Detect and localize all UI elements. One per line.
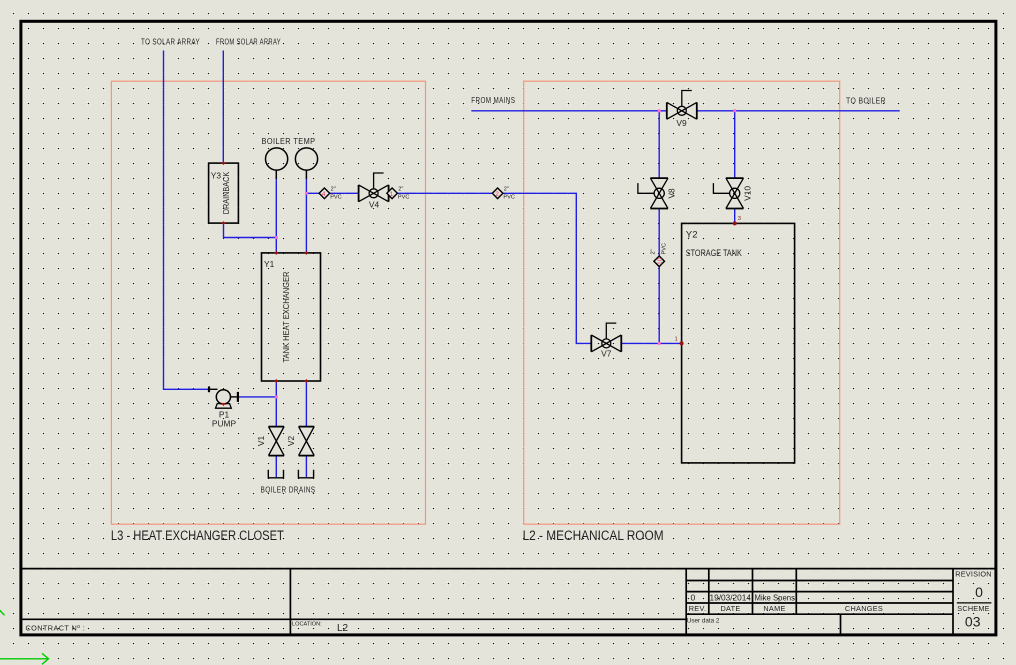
svg-text:Y1: Y1 [264, 259, 275, 269]
svg-text:Y2: Y2 [686, 230, 698, 241]
svg-text:V9: V9 [676, 118, 687, 128]
svg-text:BOILER DRAINS: BOILER DRAINS [261, 485, 316, 495]
svg-text:DATE: DATE [720, 604, 740, 613]
svg-text:V2: V2 [286, 436, 296, 447]
svg-text:2: 2 [495, 191, 499, 198]
svg-text:V1: V1 [256, 436, 266, 447]
svg-text:2": 2" [331, 186, 336, 192]
svg-text:PVC: PVC [330, 195, 342, 201]
svg-text:Y3: Y3 [211, 171, 222, 181]
svg-text:NAME: NAME [763, 604, 785, 613]
svg-text:TO SOLAR ARRAY: TO SOLAR ARRAY [141, 37, 200, 47]
svg-text:FROM MAINS: FROM MAINS [471, 95, 515, 105]
svg-text:1: 1 [390, 191, 394, 198]
svg-text:2": 2" [398, 186, 403, 192]
svg-text:L2: L2 [337, 623, 349, 634]
svg-text:V8: V8 [667, 188, 677, 199]
svg-text:L2 - MECHANICAL ROOM: L2 - MECHANICAL ROOM [523, 528, 664, 543]
svg-text:CONTRACT Nº :: CONTRACT Nº : [26, 624, 86, 633]
svg-text:0: 0 [691, 593, 696, 603]
svg-text:3: 3 [738, 216, 741, 222]
svg-text:PVC: PVC [662, 243, 668, 255]
svg-text:CHANGES: CHANGES [845, 604, 883, 613]
svg-text:Mike Spens: Mike Spens [755, 593, 796, 603]
svg-text:SCHEME: SCHEME [957, 604, 989, 613]
svg-text:V4: V4 [369, 200, 380, 210]
svg-text:TANK HEAT EXCHANGER: TANK HEAT EXCHANGER [281, 272, 291, 363]
svg-text:User data 2: User data 2 [687, 618, 720, 625]
svg-text:19/03/2014: 19/03/2014 [710, 593, 752, 603]
svg-text:PVC: PVC [398, 195, 410, 201]
svg-text:V10: V10 [743, 186, 753, 201]
svg-text:10: 10 [657, 257, 664, 265]
svg-text:REV.: REV. [689, 604, 707, 613]
svg-text:PUMP: PUMP [212, 419, 237, 429]
svg-text:0: 0 [975, 584, 983, 600]
svg-text:PVC: PVC [503, 195, 515, 201]
svg-text:REVISION: REVISION [955, 570, 991, 579]
svg-text:TO BOILER: TO BOILER [846, 95, 886, 105]
svg-text:2": 2" [504, 186, 509, 192]
svg-text:BOILER TEMP: BOILER TEMP [262, 136, 316, 146]
svg-text:2": 2" [651, 249, 657, 254]
svg-text:03: 03 [965, 614, 981, 630]
svg-text:FROM SOLAR ARRAY: FROM SOLAR ARRAY [216, 37, 281, 47]
svg-text:4: 4 [322, 191, 326, 198]
svg-text:DRAINBACK: DRAINBACK [221, 171, 231, 214]
svg-text:STORAGE TANK: STORAGE TANK [686, 248, 742, 259]
svg-text:V7: V7 [601, 349, 612, 359]
svg-text:LOCATION:: LOCATION: [292, 622, 322, 628]
svg-text:1: 1 [675, 337, 678, 343]
svg-text:L3 - HEAT EXCHANGER CLOSET: L3 - HEAT EXCHANGER CLOSET [111, 528, 284, 543]
